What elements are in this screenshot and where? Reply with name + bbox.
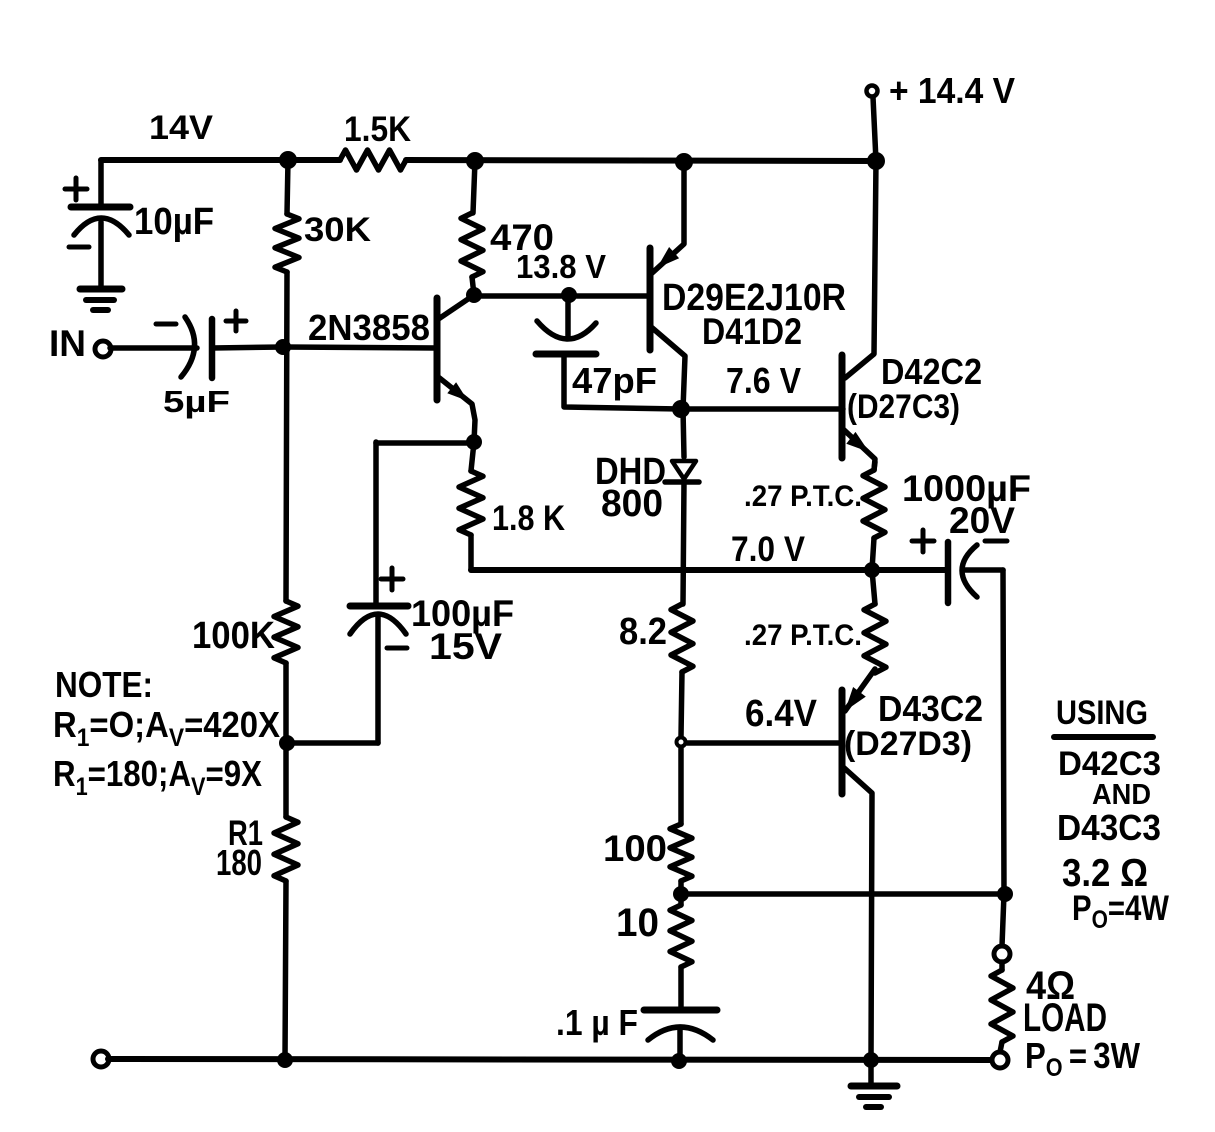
svg-text:800: 800: [601, 483, 663, 525]
svg-text:15V: 15V: [429, 626, 502, 667]
svg-text:7.6 V: 7.6 V: [726, 360, 801, 401]
svg-text:7.0 V: 7.0 V: [731, 530, 806, 569]
svg-text:47pF: 47pF: [572, 360, 657, 401]
svg-text:100: 100: [603, 828, 667, 869]
svg-text:(D27D3): (D27D3): [844, 725, 972, 763]
svg-text:(D27C3): (D27C3): [847, 388, 960, 426]
svg-text:R1=O;AV=420X: R1=O;AV=420X: [53, 704, 280, 752]
svg-text:14V: 14V: [149, 109, 213, 147]
svg-text:PO = 3W: PO = 3W: [1025, 1035, 1140, 1082]
svg-text:10µF: 10µF: [134, 201, 214, 243]
svg-text:D43C3: D43C3: [1057, 807, 1161, 848]
svg-text:PO=4W: PO=4W: [1072, 889, 1169, 934]
svg-text:.27 P.T.C.: .27 P.T.C.: [744, 480, 862, 513]
svg-text:1.8 K: 1.8 K: [492, 499, 565, 538]
svg-text:8.2: 8.2: [619, 611, 667, 653]
svg-text:IN: IN: [49, 323, 86, 364]
svg-text:LOAD: LOAD: [1023, 996, 1107, 1040]
svg-text:180: 180: [216, 842, 262, 883]
svg-text:D43C2: D43C2: [878, 688, 983, 729]
svg-text:NOTE:: NOTE:: [55, 664, 153, 705]
svg-text:+ 14.4 V: + 14.4 V: [889, 70, 1015, 111]
svg-text:100K: 100K: [192, 615, 276, 657]
svg-text:5µF: 5µF: [163, 384, 230, 419]
svg-text:20V: 20V: [949, 500, 1015, 541]
svg-text:R1=180;AV=9X: R1=180;AV=9X: [53, 753, 262, 801]
svg-text:.1 µ F: .1 µ F: [556, 1002, 638, 1043]
svg-text:.27 P.T.C.: .27 P.T.C.: [744, 619, 862, 652]
svg-text:D42C3: D42C3: [1058, 745, 1161, 783]
svg-text:30K: 30K: [304, 211, 371, 249]
svg-text:D42C2: D42C2: [881, 351, 982, 392]
svg-text:D41D2: D41D2: [702, 311, 802, 352]
svg-text:6.4V: 6.4V: [745, 693, 818, 735]
svg-text:2N3858: 2N3858: [308, 307, 430, 348]
svg-text:USING: USING: [1056, 694, 1148, 732]
svg-text:13.8 V: 13.8 V: [516, 248, 606, 285]
svg-text:10: 10: [616, 901, 659, 945]
svg-text:1.5K: 1.5K: [344, 110, 411, 149]
